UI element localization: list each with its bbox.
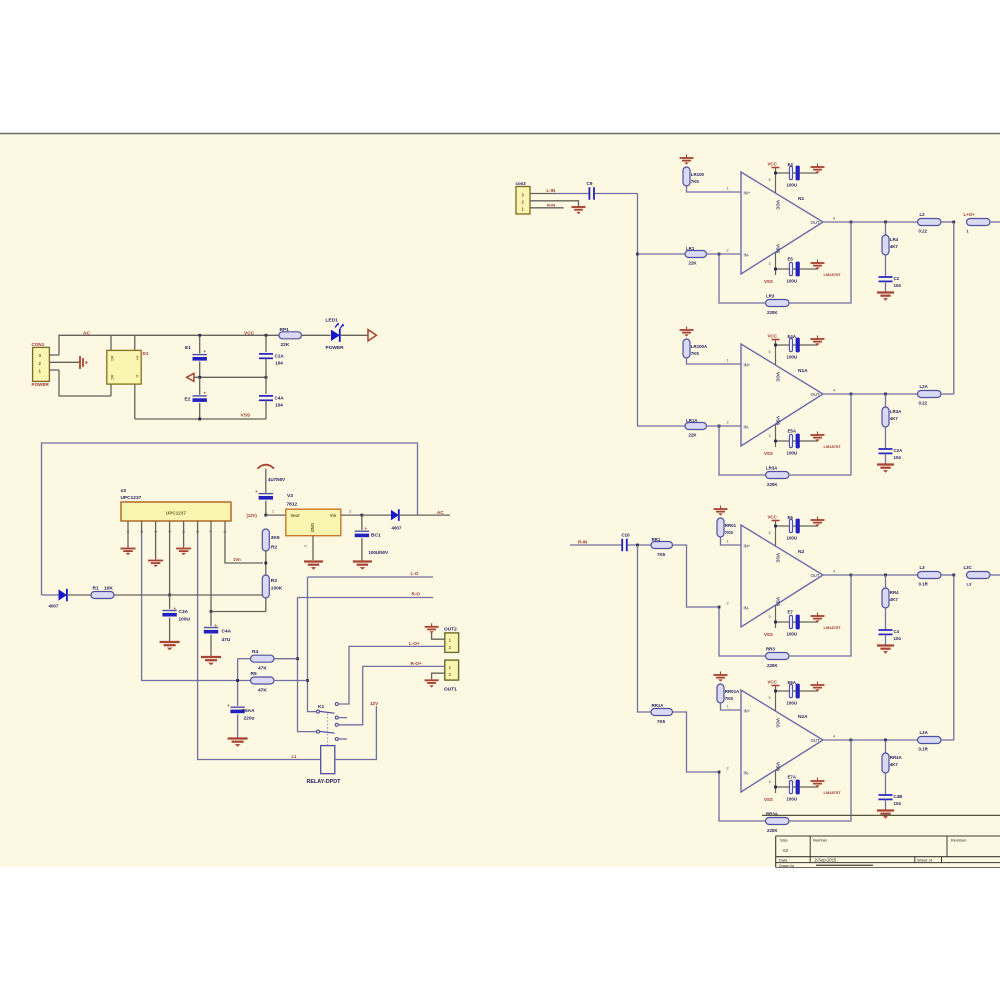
capacitor E7A <box>789 780 799 795</box>
ground C4A <box>201 657 221 665</box>
svg-text:1Vn: 1Vn <box>233 557 241 562</box>
wire AC bottom loop <box>59 370 111 396</box>
svg-text:104: 104 <box>894 801 902 806</box>
capacitor C9 <box>589 187 594 200</box>
wire C4A bottom <box>210 635 212 656</box>
resistor RR1 <box>651 542 673 549</box>
wire LR1A to IN- <box>707 425 742 427</box>
svg-text:R2: R2 <box>271 545 277 551</box>
wire BC1 bottom <box>361 538 363 561</box>
wire E1 top <box>199 335 201 353</box>
svg-text:POWER: POWER <box>326 345 345 351</box>
svg-text:E5A: E5A <box>788 429 797 434</box>
svg-text:AC: AC <box>110 356 114 362</box>
svg-text:2: 2 <box>140 531 144 533</box>
U3 pin 1 stub <box>127 521 129 535</box>
wire U3 pin4 to R1 node <box>169 535 171 595</box>
svg-text:VSS: VSS <box>241 413 251 419</box>
svg-text:L3A: L3A <box>920 730 929 735</box>
svg-text:C2A: C2A <box>275 354 285 359</box>
svg-text:2: 2 <box>727 421 729 425</box>
svg-text:C3A: C3A <box>179 609 189 615</box>
svg-text:VCC: VCC <box>768 162 778 167</box>
svg-text:2: 2 <box>727 249 729 253</box>
svg-text:6: 6 <box>196 531 200 533</box>
wire zobel top RR4A <box>885 740 887 753</box>
N1A VCC rail <box>776 344 818 346</box>
junction N2A vcc <box>774 690 777 693</box>
wire zobel top LR4A <box>885 394 887 407</box>
svg-text:OUT: OUT <box>811 392 820 397</box>
wire zobel top LR4 <box>885 222 887 235</box>
ground N2 vss <box>811 613 825 623</box>
title filename smudge <box>816 864 873 866</box>
wire E2 bottom <box>199 403 201 419</box>
junction V3/BC1 <box>361 514 364 517</box>
U3 pin 3 stub <box>155 521 157 535</box>
wire C9 to column <box>595 193 638 195</box>
wire bridge tie upper <box>953 222 955 394</box>
wire C4A2 top <box>265 377 267 394</box>
junction E1 top <box>198 334 201 337</box>
junction N1 in node <box>636 253 639 256</box>
svg-text:22K: 22K <box>689 261 698 266</box>
relay coil L1 <box>321 746 335 774</box>
wire LR1 to IN- <box>707 253 742 255</box>
resistor RR01A <box>717 684 724 703</box>
svg-text:5: 5 <box>769 531 771 535</box>
svg-text:C2: C2 <box>894 276 900 281</box>
junction N2 out <box>850 574 853 577</box>
relay armature 1 <box>317 710 335 713</box>
svg-text:LED1: LED1 <box>326 318 339 324</box>
svg-text:22K: 22K <box>281 342 290 348</box>
relay contact 4 stub <box>335 738 347 741</box>
svg-text:OUT: OUT <box>811 573 820 578</box>
svg-text:C2A: C2A <box>894 448 904 453</box>
svg-text:4U7/50V: 4U7/50V <box>268 477 285 482</box>
wire feedback N2 <box>719 607 766 656</box>
relay actuation dashed line <box>327 714 329 746</box>
svg-text:RR01A: RR01A <box>725 689 740 694</box>
capacitor C4 <box>879 630 893 634</box>
junction L2 node <box>952 221 955 224</box>
svg-text:VCC: VCC <box>244 331 255 337</box>
ground zobel LR4A <box>877 465 894 473</box>
N2A pin3 stub <box>775 771 777 794</box>
resistor RR1A <box>651 709 673 716</box>
wire output rail y=740 <box>851 739 918 741</box>
junction R4 right <box>296 657 299 660</box>
wire R2 bottom <box>265 551 267 575</box>
svg-text:N2A: N2A <box>798 714 808 720</box>
capacitor E6A <box>789 684 799 699</box>
ground arrow mid rail <box>187 373 194 381</box>
wire con3 pin3 <box>530 193 556 195</box>
resistor RP1 <box>279 332 302 339</box>
wire E2 top <box>199 377 201 395</box>
svg-text:L2: L2 <box>920 212 926 217</box>
svg-text:3: 3 <box>769 262 771 266</box>
svg-text:E5: E5 <box>788 257 794 262</box>
title block frame <box>776 836 1000 867</box>
N1A VSS rail <box>776 440 818 442</box>
ground N1A vss <box>811 432 825 442</box>
wire con3 pin1 stub <box>530 207 564 209</box>
svg-text:K1: K1 <box>318 704 324 710</box>
svg-text:N1: N1 <box>798 196 804 202</box>
svg-text:1: 1 <box>727 187 729 191</box>
junction pin7/C4A <box>210 610 213 613</box>
ground zobel LR4 <box>877 293 894 301</box>
svg-text:3: 3 <box>769 780 771 784</box>
svg-text:VSS: VSS <box>764 632 773 637</box>
wire R-O vertical <box>298 598 317 732</box>
svg-text:2: 2 <box>727 767 729 771</box>
svg-text:R-IN: R-IN <box>547 202 555 207</box>
wire AC top loop <box>59 335 111 355</box>
svg-text:(12V): (12V) <box>247 513 258 518</box>
svg-text:5: 5 <box>769 178 771 182</box>
svg-text:4: 4 <box>833 570 835 574</box>
wire bridge tie lower <box>953 575 955 740</box>
junction C5AA <box>236 679 239 682</box>
svg-text:V3: V3 <box>287 493 293 499</box>
wire after L3A <box>941 739 954 741</box>
wire R4 left <box>238 658 251 660</box>
svg-text:VSS: VSS <box>764 797 773 802</box>
N2A VCC rail <box>776 690 818 692</box>
resistor LR1A <box>685 423 707 430</box>
svg-text:100U: 100U <box>787 183 798 188</box>
resistor RR4A <box>882 753 889 773</box>
wire pin7 to R3 <box>211 611 266 613</box>
wire C4A top <box>210 612 212 627</box>
wire R1 to R3 <box>114 594 263 596</box>
svg-text:7K5: 7K5 <box>691 351 700 356</box>
wire contact1 to L-O+ <box>338 646 445 704</box>
svg-text:E4A: E4A <box>788 334 797 339</box>
svg-text:4: 4 <box>833 735 835 739</box>
svg-text:1: 1 <box>727 705 729 709</box>
svg-text:R1: R1 <box>93 586 99 592</box>
regulator V3 7812 body <box>286 509 341 536</box>
wire bridge top-left pin <box>110 335 112 350</box>
wire bridge bottom-left pin <box>110 384 112 396</box>
wire CON1 pin2 to ground <box>49 361 79 363</box>
svg-text:0.22: 0.22 <box>919 229 928 234</box>
svg-text:LR100: LR100 <box>691 172 705 177</box>
net VCC port N1A <box>772 339 780 341</box>
svg-text:R-O: R-O <box>412 592 421 597</box>
svg-text:C4B: C4B <box>894 794 903 799</box>
capacitor C7 4u7 <box>259 494 273 500</box>
svg-text:220K: 220K <box>767 482 778 487</box>
diode D3 4007 <box>391 509 399 521</box>
resistor RR01 <box>717 518 724 537</box>
svg-text:100U: 100U <box>787 632 798 637</box>
svg-text:7: 7 <box>209 531 213 533</box>
svg-text:4: 4 <box>833 389 835 393</box>
svg-text:100U: 100U <box>787 355 798 360</box>
svg-text:E2: E2 <box>185 397 191 403</box>
wire RR1 to IN- of N2 <box>673 545 720 607</box>
junction R1/C3A <box>168 594 171 597</box>
svg-text:LR4: LR4 <box>890 237 899 242</box>
svg-text:Drawn by: Drawn by <box>779 864 794 868</box>
svg-text:+: + <box>227 703 230 708</box>
svg-text:R5: R5 <box>251 671 257 677</box>
N2 VCC rail <box>776 525 818 527</box>
svg-text:n3: n3 <box>121 488 127 494</box>
resistor R5 <box>251 677 275 684</box>
svg-text:R4: R4 <box>252 649 258 655</box>
wire LR100A to IN+ <box>687 358 742 364</box>
svg-text:A3: A3 <box>783 848 789 853</box>
svg-text:VCC: VCC <box>768 680 778 685</box>
power port arrow <box>368 330 376 341</box>
wire U3 pin8 to R2 node <box>225 535 263 563</box>
svg-text:7K5: 7K5 <box>657 552 666 557</box>
capacitor C4A (supply) <box>259 396 273 400</box>
junction zobel RR4 <box>884 574 887 577</box>
svg-text:L2A: L2A <box>920 384 929 389</box>
svg-text:C4A: C4A <box>275 396 285 401</box>
wire net R-O <box>298 597 434 599</box>
wire feedback N1A <box>719 426 766 475</box>
svg-text:Vin: Vin <box>330 513 337 518</box>
junction N2 in- <box>718 606 721 609</box>
svg-text:4: 4 <box>168 531 172 533</box>
svg-text:0.22: 0.22 <box>919 401 928 406</box>
svg-text:4K7: 4K7 <box>890 762 899 767</box>
N2 VSS rail <box>776 621 818 623</box>
svg-text:R-O+: R-O+ <box>411 661 422 666</box>
capacitor E2 <box>193 396 207 402</box>
svg-text:7K5: 7K5 <box>657 719 666 724</box>
junction zobel RR4A <box>884 739 887 742</box>
wire output rail y=575 <box>851 574 918 576</box>
wire C10 to junction <box>628 544 651 546</box>
wire feedback N2A <box>719 772 766 821</box>
svg-text:OUT: OUT <box>811 738 820 743</box>
svg-text:100U: 100U <box>787 536 798 541</box>
svg-text:R3: R3 <box>271 578 277 584</box>
junction L3 node <box>952 574 955 577</box>
op-amp N1 triangle <box>741 172 823 274</box>
svg-text:2-Sep-2015: 2-Sep-2015 <box>815 858 838 863</box>
junction R2/R3 <box>264 562 267 565</box>
svg-text:Date: Date <box>779 857 788 862</box>
svg-text:7K5: 7K5 <box>691 179 700 184</box>
wire U3 pin6 relay feed <box>198 535 321 760</box>
wire zobel bottom RR4 <box>885 634 887 644</box>
resistor LR100A <box>683 339 690 358</box>
svg-text:AC: AC <box>83 330 90 336</box>
svg-text:VSS: VSS <box>764 451 773 456</box>
wire D3 to AC node <box>399 514 450 516</box>
connector OUT1 <box>445 660 459 680</box>
svg-text:VSS: VSS <box>776 762 781 771</box>
op-amp N2 triangle <box>741 525 823 627</box>
wire C2A bottom <box>265 358 267 377</box>
N2 pin5 stub <box>775 521 777 546</box>
svg-text:L+O+: L+O+ <box>964 212 976 217</box>
capacitor C2A <box>879 449 893 453</box>
svg-text:7812: 7812 <box>287 502 298 508</box>
svg-text:+: + <box>365 526 368 531</box>
svg-text:IN-: IN- <box>744 770 750 775</box>
wire C7 to 12V node <box>265 501 267 515</box>
svg-text:47U: 47U <box>222 637 231 643</box>
relay contact 3 <box>335 723 338 726</box>
svg-text:L3: L3 <box>967 582 972 587</box>
wire net L-O <box>308 576 434 578</box>
svg-text:220K: 220K <box>767 828 778 833</box>
wire VCC rail <box>111 334 279 336</box>
svg-text:AC: AC <box>110 375 114 381</box>
svg-text:VCC: VCC <box>776 372 781 382</box>
wire to LR1 <box>638 253 686 255</box>
relay armature 2 <box>317 730 335 733</box>
svg-text:C5AA: C5AA <box>242 708 256 714</box>
ground BC1 <box>353 562 372 570</box>
svg-text:RR3: RR3 <box>766 647 775 652</box>
svg-text:VCC: VCC <box>776 718 781 728</box>
svg-text:VCC: VCC <box>776 200 781 210</box>
wire R column down <box>638 545 652 712</box>
svg-text:1: 1 <box>727 540 729 544</box>
svg-text:VSS: VSS <box>776 416 781 425</box>
op-amp N2A triangle <box>741 690 823 792</box>
ground RR01A <box>714 672 728 682</box>
svg-text:IN+: IN+ <box>744 708 751 713</box>
svg-text:12V: 12V <box>370 701 379 706</box>
svg-text:L-O+: L-O+ <box>409 641 420 646</box>
capacitor E1 <box>193 355 207 361</box>
junction N1A vss <box>774 440 777 443</box>
svg-text:3: 3 <box>769 434 771 438</box>
junction mid E <box>198 376 201 379</box>
wire zobel bottom LR4A <box>885 453 887 463</box>
ground OUT2 <box>425 623 439 633</box>
svg-text:LM1875T: LM1875T <box>824 272 842 277</box>
wire N2A output <box>823 739 851 741</box>
capacitor E6 <box>789 519 799 534</box>
svg-text:2: 2 <box>304 545 308 547</box>
wire to C9 <box>556 193 589 195</box>
svg-text:+: + <box>174 606 177 611</box>
ground C5AA <box>228 739 248 747</box>
wire D2 to R1 <box>67 594 91 596</box>
svg-text:C10: C10 <box>622 533 631 538</box>
svg-text:L3C: L3C <box>964 565 973 570</box>
svg-text:OUT1: OUT1 <box>444 687 457 693</box>
junction N2 vss <box>774 621 777 624</box>
wire zobel mid LR4A <box>885 427 887 449</box>
wire V3 node to D3 <box>362 514 391 516</box>
wire zobel bottom RR4A <box>885 799 887 809</box>
svg-text:220u: 220u <box>244 716 255 722</box>
svg-text:0.1R: 0.1R <box>919 747 929 752</box>
svg-text:N2: N2 <box>798 549 804 555</box>
svg-text:100U: 100U <box>787 701 798 706</box>
svg-text:L-O: L-O <box>411 571 419 576</box>
svg-text:CON1: CON1 <box>32 342 45 347</box>
N1A pin5 stub <box>775 340 777 365</box>
capacitor C10 <box>622 539 627 552</box>
junction N1A in- <box>718 425 721 428</box>
svg-text:3: 3 <box>349 510 351 514</box>
resistor R3 <box>262 575 269 598</box>
capacitor C3A <box>162 611 176 617</box>
relay contact 1 <box>335 703 338 706</box>
svg-text:+: + <box>204 390 207 395</box>
V3 ground pin wire <box>312 536 314 560</box>
svg-text:+: + <box>204 349 207 354</box>
svg-text:GND: GND <box>310 523 315 532</box>
wire LR100 to IN+ <box>687 186 742 192</box>
U3 pin 8 stub <box>224 521 226 535</box>
U3 pin 5 stub <box>183 521 185 535</box>
N1 VSS rail <box>776 268 818 270</box>
series element L3x <box>967 572 991 579</box>
svg-text:OUT: OUT <box>811 220 820 225</box>
ground V3 <box>304 562 323 570</box>
wire R3 bottom <box>265 598 267 612</box>
svg-text:Size: Size <box>780 838 789 843</box>
resistor LR1 <box>685 251 707 258</box>
svg-text:IN+: IN+ <box>744 362 751 367</box>
svg-text:IN-: IN- <box>744 252 750 257</box>
capacitor C4B <box>879 795 893 799</box>
ground con3 <box>572 207 586 214</box>
wire 12V node to V3 <box>266 514 286 516</box>
svg-text:LR100A: LR100A <box>691 344 708 349</box>
wire U3 pin7 down <box>210 535 212 612</box>
svg-text:UPC1237: UPC1237 <box>121 495 142 501</box>
ground zobel RR4A <box>877 811 894 819</box>
N2A pin5 stub <box>775 686 777 711</box>
sheet top border <box>0 133 1000 135</box>
svg-text:104: 104 <box>894 636 902 641</box>
svg-text:Revision: Revision <box>951 838 966 843</box>
net VCC port N2 <box>772 520 780 522</box>
diode D2 4007 <box>59 589 67 601</box>
junction N2 vcc <box>774 525 777 528</box>
resistor RR4 <box>882 588 889 608</box>
svg-text:10K: 10K <box>104 586 113 592</box>
wire output rail y=222 <box>851 221 918 223</box>
wire BC1 top <box>361 515 363 530</box>
capacitor E7 <box>789 615 799 630</box>
svg-text:L1: L1 <box>292 754 298 759</box>
junction N2A vss <box>774 786 777 789</box>
svg-text:1: 1 <box>272 510 274 514</box>
N1 pin3 stub <box>775 253 777 276</box>
ground N2A vss <box>811 778 825 788</box>
svg-text:VCC: VCC <box>768 334 778 339</box>
wire C3A top <box>169 595 171 609</box>
svg-text:3: 3 <box>154 531 158 533</box>
wire zobel bottom LR4 <box>885 281 887 291</box>
svg-text:RR4A: RR4A <box>890 755 903 760</box>
ground OUT1 <box>425 680 439 687</box>
svg-text:R-IN: R-IN <box>578 540 587 545</box>
svg-text:LM1875T: LM1875T <box>824 444 842 449</box>
capacitor BC1 <box>355 531 369 537</box>
capacitor C2A <box>259 354 273 358</box>
